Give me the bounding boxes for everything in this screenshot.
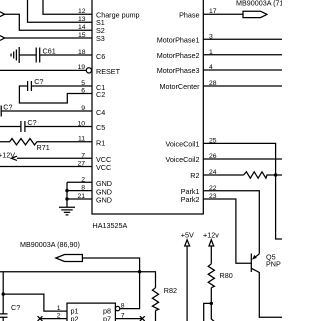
off-page flag to MB90003A — [243, 11, 267, 17]
wire pin15 S3 — [5, 37, 92, 39]
wire pin9 C4 — [1, 110, 92, 112]
power arrow +12v — [209, 240, 214, 246]
svg-text:RESET: RESET — [96, 67, 121, 76]
resistor R2 net — [244, 172, 283, 178]
svg-text:8: 8 — [121, 303, 125, 310]
svg-text:19: 19 — [77, 64, 85, 71]
wire pin2 GND — [67, 181, 92, 183]
svg-text:MotorPhase2: MotorPhase2 — [157, 51, 200, 60]
svg-text:13: 13 — [78, 16, 86, 23]
junction R2 node — [274, 173, 277, 176]
wire pin17 Phase — [203, 13, 243, 15]
wire pin8 GND — [67, 190, 92, 192]
svg-text:VCC: VCC — [96, 163, 111, 172]
svg-text:C6: C6 — [96, 52, 105, 61]
wire net to pin p1 — [3, 294, 67, 311]
wire long horizontal net — [0, 272, 156, 288]
resistor R80 — [208, 264, 232, 288]
svg-text:p7: p7 — [103, 315, 111, 321]
svg-text:R80: R80 — [220, 271, 233, 280]
capacitor C61 — [36, 47, 55, 63]
wire pin1 MotorPhase2 — [203, 54, 282, 56]
svg-text:VoiceCoil1: VoiceCoil1 — [166, 140, 200, 149]
off-page arrow A2 — [0, 36, 5, 41]
svg-text:C61: C61 — [43, 47, 56, 56]
wire pin27 VCC — [0, 166, 92, 168]
power arrow +5V — [185, 240, 190, 246]
wire R82 down — [155, 311, 157, 321]
ground (rotated) at C61 — [11, 47, 19, 63]
inverter bubble pin19 — [86, 68, 91, 73]
svg-text:1: 1 — [209, 49, 213, 56]
ground symbol — [59, 207, 75, 215]
wire R2 node down to edge — [276, 175, 282, 239]
wire gnd to C61 — [19, 54, 36, 56]
svg-text:R2: R2 — [190, 171, 199, 180]
svg-text:p2: p2 — [71, 315, 79, 321]
wire cap to bottom edge — [2, 317, 4, 321]
svg-text:6: 6 — [81, 88, 85, 95]
wire pin14 S2 — [5, 14, 92, 30]
wire pin13 S1 — [28, 0, 93, 22]
svg-text:+12v: +12v — [203, 230, 219, 239]
svg-text:10: 10 — [77, 121, 85, 128]
svg-text:24: 24 — [209, 169, 217, 176]
capacitor C? (C4, clipped at left) — [0, 102, 13, 116]
svg-text:+5V: +5V — [181, 230, 194, 239]
svg-text:4: 4 — [209, 64, 213, 71]
junction flag net / long wire — [138, 270, 141, 273]
wire pin p2 with no-connect — [38, 316, 67, 321]
wire pin23 Park2 — [203, 199, 251, 263]
svg-text:C?: C? — [27, 118, 36, 127]
wire pin10 C5 left — [0, 126, 21, 128]
wire pin24 R2 — [203, 174, 243, 176]
wire pin5 C1 — [31, 85, 92, 87]
svg-text:MotorPhase1: MotorPhase1 — [157, 36, 200, 45]
svg-text:1: 1 — [57, 305, 61, 312]
svg-text:R1: R1 — [96, 138, 105, 147]
svg-text:14: 14 — [78, 24, 86, 31]
wire flag to pin p8 — [82, 258, 139, 309]
junction left net — [2, 292, 5, 295]
svg-text:MB90003A (71,90): MB90003A (71,90) — [236, 0, 282, 8]
svg-text:C5: C5 — [96, 123, 105, 132]
svg-text:VoiceCoil2: VoiceCoil2 — [166, 155, 200, 164]
junction R80 node — [210, 302, 213, 305]
junction pin21 — [65, 197, 68, 200]
power arrow +12V — [11, 156, 17, 160]
transistor Q5 PNP — [251, 253, 282, 318]
svg-text:PNP: PNP — [266, 260, 281, 269]
off-page flag from MB90003A — [56, 255, 83, 262]
svg-text:26: 26 — [209, 153, 217, 160]
svg-text:S3: S3 — [96, 34, 105, 43]
svg-text:Phase: Phase — [179, 10, 199, 19]
svg-text:8: 8 — [81, 185, 85, 192]
wire pin21 GND — [67, 198, 92, 200]
svg-text:MB90003A (86,90): MB90003A (86,90) — [20, 240, 80, 249]
svg-text:C2: C2 — [96, 90, 105, 99]
wire C61 to pin18 — [40, 54, 92, 56]
svg-text:C?: C? — [3, 102, 12, 111]
inverter bubble p8 — [115, 306, 119, 310]
svg-text:2: 2 — [81, 176, 85, 183]
svg-text:22: 22 — [209, 185, 217, 192]
capacitor C? (C1-C2) — [28, 77, 44, 91]
wire +12v to R80 — [210, 246, 212, 264]
op-amp U2 small IC — [67, 303, 115, 321]
svg-text:21: 21 — [77, 193, 85, 200]
svg-text:18: 18 — [78, 49, 86, 56]
off-page arrow A1 — [0, 12, 5, 17]
svg-text:15: 15 — [78, 32, 86, 39]
capacitor C? (C5) — [21, 118, 37, 132]
svg-text:MotorPhase3: MotorPhase3 — [157, 66, 200, 75]
wire gnd bus — [66, 182, 68, 207]
svg-text:7: 7 — [81, 152, 85, 159]
svg-text:HA13525A: HA13525A — [93, 221, 128, 230]
svg-text:MotorCenter: MotorCenter — [160, 82, 201, 91]
wire pin25 VoiceCoil1 — [203, 143, 275, 175]
svg-text:5: 5 — [81, 80, 85, 87]
wire pin4 MotorPhase3 — [203, 69, 282, 71]
svg-text:C?: C? — [34, 77, 43, 86]
svg-text:Park2: Park2 — [181, 195, 200, 204]
svg-text:17: 17 — [209, 8, 217, 15]
svg-text:27: 27 — [77, 161, 85, 168]
wire pin22 Park1 — [203, 191, 259, 254]
wire pin7 VCC — [17, 157, 92, 159]
svg-text:23: 23 — [209, 193, 217, 200]
svg-text:C4: C4 — [96, 108, 105, 117]
wire pin3 MotorPhase1 — [203, 38, 282, 40]
wire left net down — [2, 272, 4, 314]
wire pin10 C5 right — [25, 126, 92, 128]
wire pin12 Charge pump — [43, 0, 92, 14]
resistor R71 — [0, 139, 92, 153]
wire pin28 MotorCenter — [203, 85, 282, 87]
svg-text:C?: C? — [11, 303, 20, 312]
capacitor C? bottom left — [0, 303, 20, 317]
wire pin p7 with no-connect — [115, 316, 144, 321]
wire branch left down — [204, 303, 212, 321]
op-amp U1 HA13525A IC body — [92, 0, 203, 230]
wire R80 node down — [211, 303, 214, 321]
wire +5V rail down — [186, 246, 188, 321]
svg-text:R71: R71 — [37, 143, 50, 152]
svg-text:28: 28 — [209, 80, 217, 87]
svg-text:GND: GND — [96, 196, 112, 205]
svg-text:R82: R82 — [164, 286, 177, 295]
wire pin26 VoiceCoil2 — [203, 158, 282, 160]
svg-text:25: 25 — [209, 137, 217, 144]
wire R80 down — [210, 288, 212, 304]
svg-text:12: 12 — [78, 8, 86, 15]
wire pin19 RESET — [0, 69, 86, 71]
svg-text:9: 9 — [81, 105, 85, 112]
wire cap left leg — [19, 86, 92, 103]
svg-text:11: 11 — [78, 136, 85, 143]
svg-text:3: 3 — [209, 33, 213, 40]
junction pin8 — [65, 189, 68, 192]
resistor R82 — [152, 286, 177, 310]
